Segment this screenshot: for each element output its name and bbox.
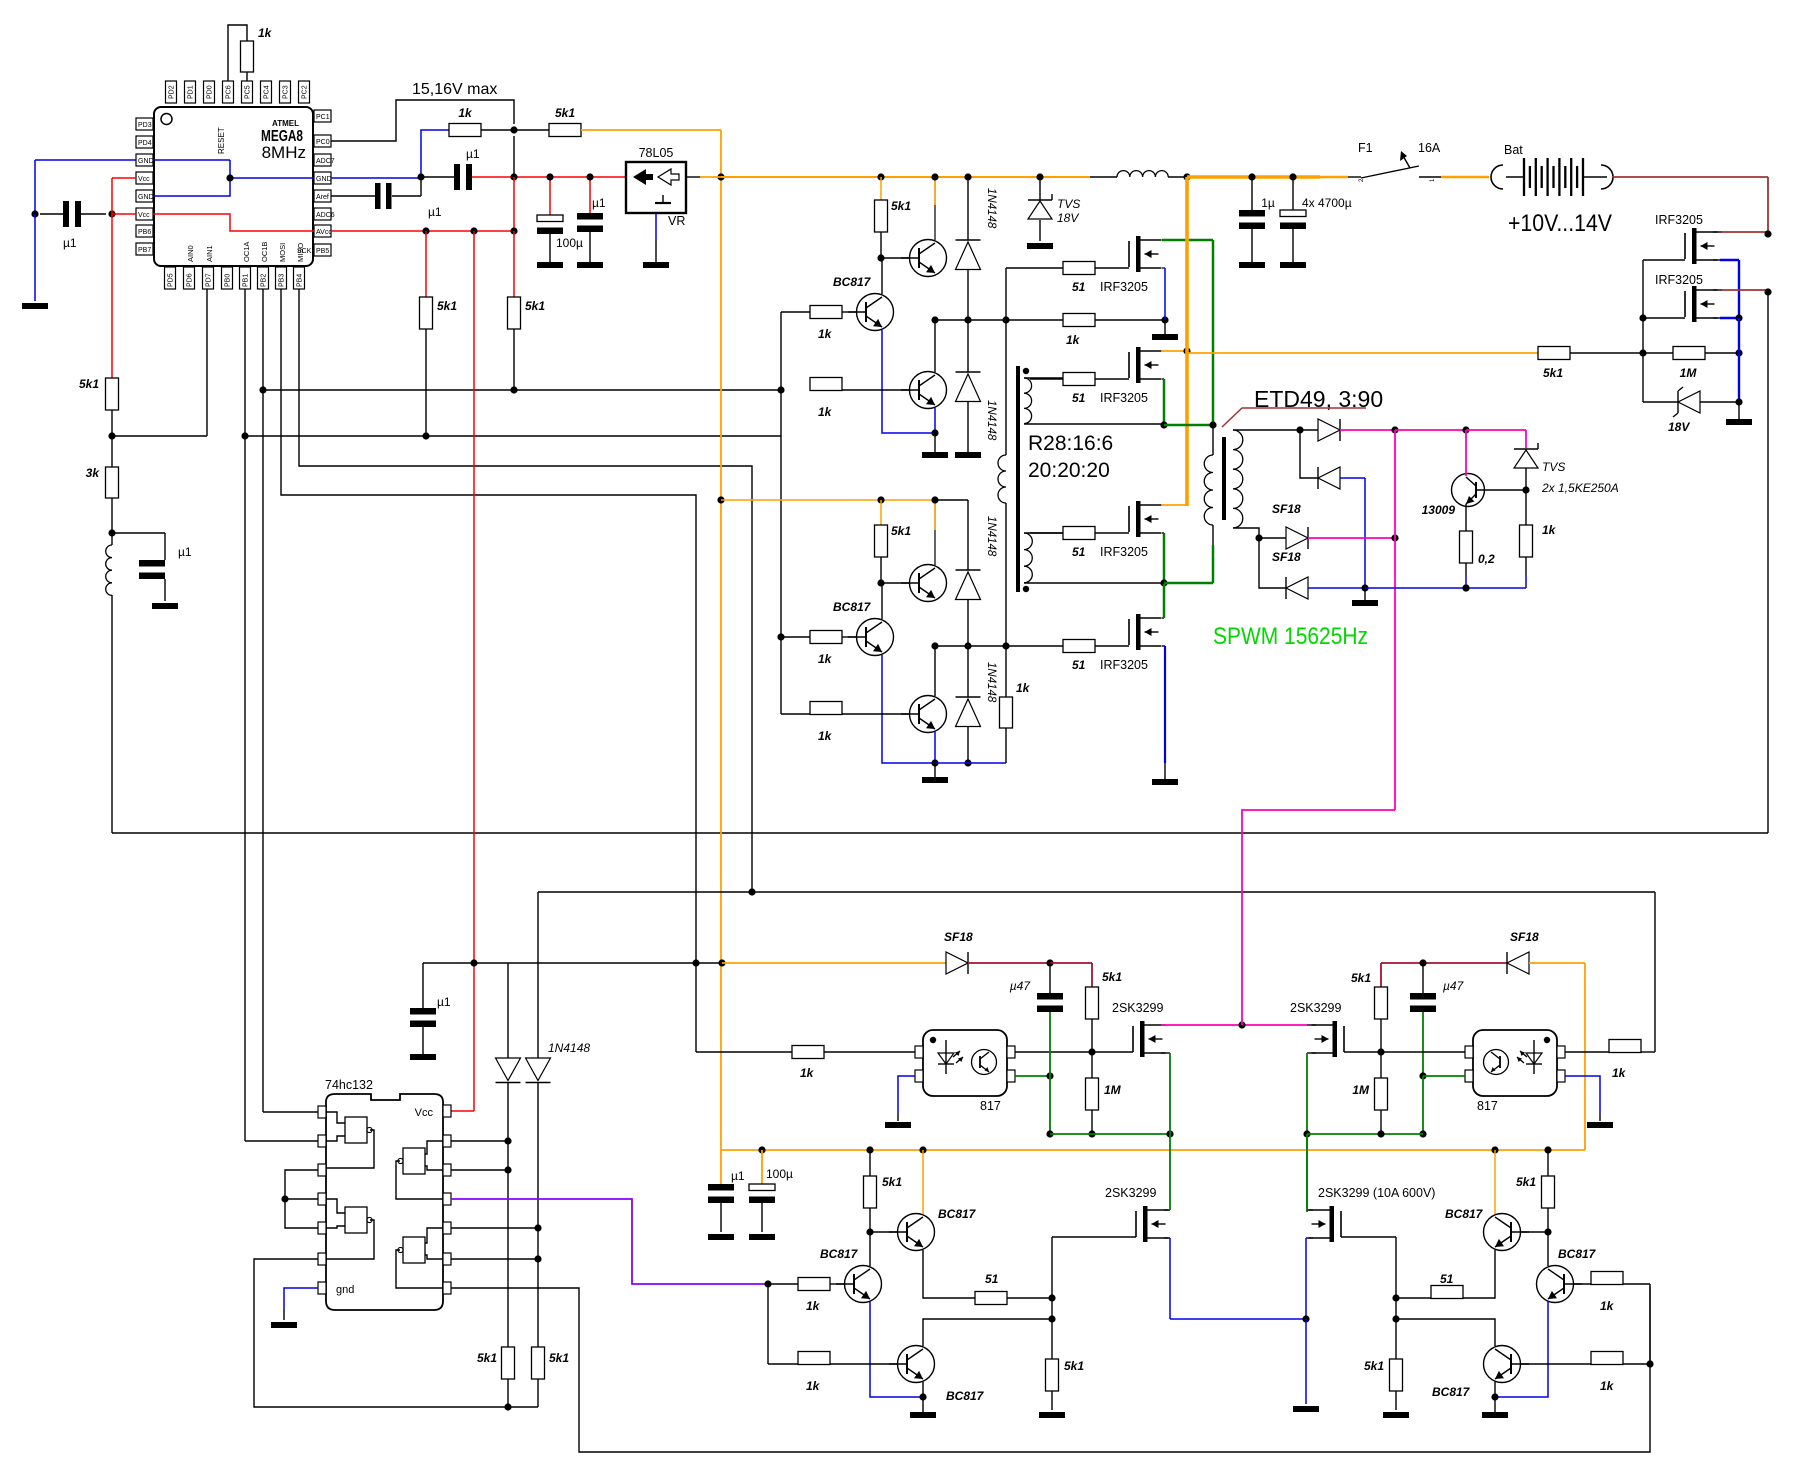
resistor R36 5k1 (M9 pulldown) xyxy=(1046,1359,1085,1410)
label BC817 Q8 xyxy=(938,1207,977,1221)
node junction rail2 Q4 xyxy=(931,496,938,503)
wire orange Q4 collector xyxy=(934,500,936,530)
wire blue Q11 emitter xyxy=(1495,1302,1548,1397)
svg-text:16A: 16A xyxy=(1418,141,1441,155)
wire PB3 column to opto channel xyxy=(281,289,696,963)
node junction GND/Aref cap xyxy=(417,173,424,180)
resistor R10 1k (Q3 base) xyxy=(810,378,842,420)
svg-text:1k: 1k xyxy=(1612,1066,1627,1080)
svg-text:5k1: 5k1 xyxy=(891,524,911,538)
wire T2 primary top green xyxy=(1164,240,1213,425)
transformer T1 lower winding xyxy=(1024,533,1164,583)
wire red AVcc down to 74hc132 Vcc xyxy=(451,231,474,1111)
ground symbol under C6 xyxy=(577,262,603,268)
svg-text:R28:16:6: R28:16:6 xyxy=(1028,432,1113,455)
svg-text:51: 51 xyxy=(1072,545,1086,559)
ground symbol under TVS xyxy=(1027,243,1053,249)
svg-text:2SK3299: 2SK3299 xyxy=(1290,1001,1341,1015)
svg-text:1N4148: 1N4148 xyxy=(985,662,997,703)
svg-text:RESET: RESET xyxy=(217,127,226,154)
label SPWM 15625Hz xyxy=(1213,623,1368,650)
svg-text:IRF3205: IRF3205 xyxy=(1655,273,1703,287)
transformer T1 core xyxy=(1016,366,1020,592)
wire opto1 collector out xyxy=(1015,1051,1092,1053)
svg-text:5k1: 5k1 xyxy=(1102,970,1122,984)
wire Q6 collector xyxy=(934,646,936,696)
transistor Q10 BC817 (drv4 top) xyxy=(1484,1150,1549,1251)
svg-text:ATMEL: ATMEL xyxy=(272,119,299,128)
resistor R37 5k1 (M10 pulldown) xyxy=(1364,1359,1403,1410)
ground symbol under R36 xyxy=(1039,1412,1065,1418)
wire orange Q1 collector xyxy=(934,177,936,205)
svg-text:PD1: PD1 xyxy=(188,85,195,99)
resistor R4 1k (PC0 series) xyxy=(449,106,481,137)
wire U3 p12 out xyxy=(451,1169,508,1171)
node junction gate node right xyxy=(1392,1294,1399,1301)
ground symbol under C5 xyxy=(537,262,563,268)
node junction blue rail diode xyxy=(964,759,971,766)
wire emitter green to rail xyxy=(1422,1076,1424,1134)
resistor R38 5k1 (drv4 bias) xyxy=(1516,1150,1555,1232)
mosfet M7 2SK3299 (hi left) xyxy=(1112,1001,1166,1057)
node junction bus 5k1 a xyxy=(877,173,884,180)
resistor R20 0,2 (emitter) xyxy=(1460,504,1496,575)
node junction Vcc left rail xyxy=(108,210,115,217)
node junction opto1 out / 5k1 xyxy=(1088,1048,1095,1055)
wire 78L05 ground (blue) xyxy=(655,213,657,262)
MCU U1 right pins PC1 PC0 ADC7 GND Aref ADC6 AVcc PB5 xyxy=(314,110,335,256)
wire fuse to battery (orange) xyxy=(1441,176,1489,179)
node junction 1M bottom right xyxy=(1377,1130,1384,1137)
node junction drv4 base node xyxy=(1544,1228,1551,1235)
wire AVcc rail red xyxy=(331,230,514,232)
wire HV return blue to 1k xyxy=(1466,575,1526,588)
wire gate column right xyxy=(1395,1237,1397,1359)
svg-text:8MHz: 8MHz xyxy=(262,143,306,162)
wire opto2 LED anode xyxy=(1565,1051,1609,1053)
svg-text:1M: 1M xyxy=(1680,366,1698,380)
leader line ETD49 xyxy=(1222,408,1366,427)
resistor R27 5k1 (opto1 pull-up) xyxy=(1086,970,1123,1052)
diode D12 1N4148 xyxy=(496,1058,521,1347)
node junction bus diode column xyxy=(964,173,971,180)
node junction emitter/cap xyxy=(1046,1072,1053,1079)
fuse F1 16A switch symbol xyxy=(1348,141,1441,182)
node junction y892/PB4 column xyxy=(748,888,755,895)
transformer T2 primary winding xyxy=(1204,425,1213,545)
resistor R24 5k1 (pulldown a) xyxy=(477,1347,515,1407)
wire Q12 collector link xyxy=(1396,1319,1495,1346)
label U3 Vcc xyxy=(415,1107,434,1119)
svg-text:PB2: PB2 xyxy=(261,274,268,287)
resistor R16 1k (winding return) xyxy=(1000,646,1031,763)
resistor R39 1k (Q11 base) xyxy=(1573,1272,1650,1314)
node junction y963/bootstrap xyxy=(718,959,725,966)
MCU U1 ATmega8 body xyxy=(154,107,313,266)
wire C10 green down xyxy=(1049,1012,1051,1134)
wire magenta from control xyxy=(1242,810,1395,1025)
node junction 1M bottom xyxy=(1088,1130,1095,1137)
svg-text:51: 51 xyxy=(1440,1272,1454,1286)
wire y892 down to right opto xyxy=(1654,892,1656,1052)
wire drv3 ground stub xyxy=(922,1397,924,1412)
node junction p13/x508 xyxy=(504,1137,511,1144)
svg-text:PB0: PB0 xyxy=(225,274,232,287)
wire orange y963 branch xyxy=(722,962,946,964)
svg-text:PD2: PD2 xyxy=(169,85,176,99)
gate U3D nand xyxy=(396,1228,443,1288)
wire Q3 collector to rail xyxy=(934,320,936,372)
diode D2 1N4148 (driver1 top) xyxy=(956,177,981,320)
svg-text:5k1: 5k1 xyxy=(1064,1359,1084,1373)
MCU internal AVcc wire (red) xyxy=(153,214,314,231)
label 74hc132 xyxy=(325,1078,373,1092)
ground symbol drv3 xyxy=(910,1412,936,1418)
node junction pulldown rail xyxy=(504,1403,511,1410)
svg-text:MOSI: MOSI xyxy=(278,243,287,262)
wire gate column left xyxy=(1051,1237,1053,1359)
svg-text:PC2: PC2 xyxy=(302,85,309,99)
svg-text:1k: 1k xyxy=(458,106,473,120)
node junction driver2 base node xyxy=(877,579,884,586)
wire Q12 emitter xyxy=(1494,1382,1496,1397)
wire M9 source blue xyxy=(1164,1238,1170,1319)
svg-text:IRF3205: IRF3205 xyxy=(1100,391,1148,405)
wire orange driver2 rail xyxy=(721,499,935,501)
ground symbol opto1 xyxy=(885,1122,911,1128)
wire Vcc pins to left vertical rail (red) xyxy=(112,178,136,214)
node junction Q12 collector xyxy=(1392,1315,1399,1322)
wire boost to 5k1 xyxy=(1050,963,1092,987)
svg-text:PD0: PD0 xyxy=(207,85,214,99)
transistor Q6 BC817 (driver2 bottom) xyxy=(781,696,947,733)
svg-text:2SK3299: 2SK3299 xyxy=(1105,1186,1156,1200)
wire HV return blue right xyxy=(1365,587,1466,589)
diode D13 1N4148 xyxy=(526,1058,551,1347)
svg-text:51: 51 xyxy=(1072,658,1086,672)
resistor R3 3k (divider bottom) xyxy=(86,436,119,498)
wire PB1 column down to 74hc132 pin2 xyxy=(245,289,318,1141)
svg-text:5k1: 5k1 xyxy=(891,199,911,213)
svg-text:5k1: 5k1 xyxy=(1351,971,1371,985)
svg-text:5k1: 5k1 xyxy=(525,299,545,313)
wire D6 output magenta xyxy=(1340,429,1395,431)
node junction on drive line (AVcc pull-up) xyxy=(422,432,429,439)
svg-text:4x 4700µ: 4x 4700µ xyxy=(1302,196,1352,210)
wire Q6 emitter xyxy=(934,732,936,763)
ground symbol under C8 xyxy=(1280,262,1306,268)
svg-text:AIN1: AIN1 xyxy=(205,245,214,262)
resistor R33 1k (Q7 base) xyxy=(768,1278,845,1314)
wire emitters to ground xyxy=(934,433,936,452)
transformer T1 feedback winding xyxy=(998,268,1006,646)
resistor R15 51 (M4 gate) xyxy=(1063,640,1129,653)
svg-text:TVS: TVS xyxy=(1542,460,1565,474)
diode D9 SF18 (clamp lower) xyxy=(1259,538,1308,599)
svg-text:Vcc: Vcc xyxy=(138,212,150,219)
svg-text:PD6: PD6 xyxy=(187,273,194,287)
mosfet M8 2SK3299 (hi right) xyxy=(1290,1001,1344,1057)
capacitor C8 4x 4700u xyxy=(1280,177,1352,262)
label 15,16V max xyxy=(412,81,497,98)
label SF18 a xyxy=(1272,502,1301,516)
node junction green rail left end xyxy=(1046,1130,1053,1137)
svg-text:2x 1,5KE250A: 2x 1,5KE250A xyxy=(1541,481,1619,495)
wire T2 primary bottom green xyxy=(1164,545,1213,583)
wire magenta column down xyxy=(1394,430,1396,810)
svg-text:PD7: PD7 xyxy=(206,273,213,287)
svg-text:100µ: 100µ xyxy=(556,236,583,250)
wire x781 internal driver link xyxy=(780,312,782,714)
svg-text:1M: 1M xyxy=(1104,1083,1122,1097)
wire M1 source blue xyxy=(1162,268,1165,320)
svg-text:OC1A: OC1A xyxy=(242,242,251,262)
svg-text:1µ: 1µ xyxy=(1261,196,1275,210)
label 1N4148 pair xyxy=(548,1041,590,1055)
svg-text:IRF3205: IRF3205 xyxy=(1100,545,1148,559)
node junction R20 return xyxy=(1462,584,1469,591)
svg-text:µ47: µ47 xyxy=(1443,979,1465,993)
wire M6 gate link xyxy=(1643,317,1685,319)
wire blue source rail xyxy=(1170,1318,1306,1320)
wire Q3 emitter blue xyxy=(934,408,936,433)
node junction bus Q8 xyxy=(919,1146,926,1153)
svg-text:µ1: µ1 xyxy=(466,147,480,161)
svg-text:1k: 1k xyxy=(818,405,833,419)
node junction AVcc b xyxy=(470,227,477,234)
wire Q9 emitter xyxy=(922,1382,924,1397)
node junction rail2 a xyxy=(931,642,938,649)
svg-text:5k1: 5k1 xyxy=(549,1351,569,1365)
ground symbol M4 xyxy=(1152,779,1178,785)
svg-text:AVcc: AVcc xyxy=(316,229,332,236)
svg-text:1N4148: 1N4148 xyxy=(985,188,997,229)
wire M2 source green xyxy=(1162,379,1164,425)
node junction 5V/C6 xyxy=(586,173,593,180)
mosfet M4 IRF3205 xyxy=(1072,614,1162,672)
wire input link right xyxy=(1649,1284,1651,1364)
wire inductor to thick bus node xyxy=(1168,176,1187,178)
label +10V...14V xyxy=(1508,210,1612,237)
svg-text:TVS: TVS xyxy=(1057,197,1080,211)
wire reset resistor bottom to PC5 pin xyxy=(246,72,248,81)
wire M10 source blue xyxy=(1306,1238,1313,1319)
wire divider xyxy=(111,410,113,436)
wire from PC6 pin up and over to reset resistor xyxy=(228,25,247,81)
wire PB2 column down to 74hc132 pin1 xyxy=(263,289,318,1112)
resistor R25 5k1 (pulldown b) xyxy=(532,1347,570,1407)
svg-text:SF18: SF18 xyxy=(1510,930,1539,944)
MCU U1 left pins PD3 PD4 GND Vcc GND Vcc PB6 PB7 xyxy=(136,118,154,255)
wire M9 drain green xyxy=(1164,1134,1170,1210)
inductor L2 (input filter) xyxy=(1117,171,1168,177)
node junction rail1 a xyxy=(931,316,938,323)
wire M8 drain magenta xyxy=(1242,1024,1316,1026)
capacitor C13 100u (bottom bus) xyxy=(749,1150,793,1232)
gate U3A nand xyxy=(326,1112,374,1168)
wire magenta to TVS corner xyxy=(1466,430,1526,448)
wire blue emitter rail 2 xyxy=(935,762,1006,764)
node junction rail2 winding xyxy=(1002,642,1009,649)
svg-text:100µ: 100µ xyxy=(766,1167,793,1181)
wire M4 source to ground xyxy=(1164,763,1166,779)
wire opto2 cathode blue to gnd xyxy=(1565,1076,1600,1121)
MCU internal GND wire (blue) xyxy=(153,160,314,196)
node junction right source node a xyxy=(1735,349,1742,356)
diode D8 SF18 xyxy=(1259,527,1308,549)
ground symbol under C13 xyxy=(749,1234,775,1240)
svg-text:51: 51 xyxy=(1072,280,1086,294)
wire inductor down and long bottom rail to right edge xyxy=(112,595,1768,833)
node junction drv4 emitters xyxy=(1491,1393,1498,1400)
gate U3C nand xyxy=(396,1141,443,1199)
svg-text:ADC6: ADC6 xyxy=(316,212,335,219)
svg-text:PC1: PC1 xyxy=(316,114,330,121)
svg-text:gnd: gnd xyxy=(336,1284,354,1296)
svg-text:Vcc: Vcc xyxy=(415,1107,434,1119)
capacitor C11 u47 (boost right) xyxy=(1410,963,1465,1012)
resistor R5 5k1 (to boost rail) xyxy=(549,106,581,137)
node junction HV magenta column xyxy=(1391,534,1398,541)
ground symbol under C9 xyxy=(410,1054,436,1060)
capacitor C4 u1 (Aref) xyxy=(331,178,442,219)
wire right source column blue xyxy=(1738,318,1740,402)
wire M10 drain green xyxy=(1307,1134,1313,1210)
resistor R8 5k1 (driver1 bias) xyxy=(875,177,912,258)
node junction secondary bottom xyxy=(1255,534,1262,541)
svg-text:PD5: PD5 xyxy=(168,273,175,287)
svg-text:15,16V max: 15,16V max xyxy=(412,81,497,98)
wire blue Q5 emitter xyxy=(882,655,935,763)
mosfet M5 IRF3205 (reverse protect top) xyxy=(1655,213,1718,264)
svg-text:PB4: PB4 xyxy=(297,274,304,287)
node junction TVS/base xyxy=(1522,486,1529,493)
node junction battery rail b xyxy=(1764,288,1771,295)
wire 78L05 output to bus xyxy=(686,176,721,178)
diode D3 1N4148 (driver1 bottom) xyxy=(956,320,981,452)
svg-text:20:20:20: 20:20:20 xyxy=(1028,459,1110,482)
node junction M2 drain / orange rail xyxy=(1183,347,1190,354)
node junction magenta bridge xyxy=(1238,1021,1245,1028)
wire GND pin right (blue) to cap node xyxy=(331,177,421,179)
resistor R11 1k (M1 gate pulldown) xyxy=(1063,314,1165,348)
node junction boost left xyxy=(1046,959,1053,966)
transistor Q11 BC817 (drv4 mid) xyxy=(1537,1232,1583,1303)
label 1N4148 d xyxy=(985,662,997,703)
svg-text:SF18: SF18 xyxy=(1272,502,1301,516)
svg-text:PB7: PB7 xyxy=(138,247,151,254)
svg-text:BC817: BC817 xyxy=(820,1247,859,1261)
ground symbol M1 source xyxy=(1152,320,1178,340)
node junction bus cap 100u xyxy=(758,1146,765,1153)
transistor Q13 13009 xyxy=(1422,474,1526,518)
wire blue Q2 emitter to gnd node xyxy=(882,330,935,433)
capacitor C3 u1 (5V rail) xyxy=(421,147,480,190)
wire node to PD7 xyxy=(112,289,207,436)
wire PB3 column to LED resistor xyxy=(696,963,792,1052)
diode D5 1N4148 (driver2 bottom) xyxy=(956,646,981,763)
label R28:16:6 xyxy=(1028,432,1113,455)
node junction bus C7 xyxy=(1248,173,1255,180)
wire rail2 to diode col xyxy=(935,499,968,501)
node junction at left rail and capacitor xyxy=(31,210,38,217)
ground symbol left rail xyxy=(22,303,48,309)
node junction bus TVS xyxy=(1036,173,1043,180)
wire M6 drain dark red xyxy=(1713,289,1768,291)
svg-text:3k: 3k xyxy=(86,466,101,480)
svg-text:IRF3205: IRF3205 xyxy=(1100,280,1148,294)
node junction PB1 / drive line xyxy=(241,432,248,439)
wire orange gate feed right xyxy=(1187,352,1538,354)
wire M2 drain orange xyxy=(1162,350,1187,352)
wire Q8 emitter to 51 xyxy=(923,1250,975,1298)
wire left rail down to ground xyxy=(34,214,36,301)
svg-text:IRF3205: IRF3205 xyxy=(1655,213,1703,227)
transistor Q8 BC817 (drv3 top) xyxy=(870,1150,935,1251)
resistor R35 51 (M9 gate) xyxy=(975,1272,1052,1305)
IC U3 right pins xyxy=(443,1105,451,1294)
node junction y963/PB3 column xyxy=(692,959,699,966)
svg-text:PD4: PD4 xyxy=(138,140,152,147)
diode D1 TVS 18V xyxy=(1028,177,1080,241)
resistor R7 5k1 (PB2 pull-up) xyxy=(508,231,546,390)
node junction HV+ a xyxy=(1391,426,1398,433)
svg-text:µ1: µ1 xyxy=(592,196,606,210)
capacitor C2 u1 (PD7 filter) xyxy=(139,545,192,601)
resistor R34 1k (Q9 base) xyxy=(798,1352,830,1394)
node junction bus / thick rail xyxy=(1183,173,1190,180)
ground symbol driver2 xyxy=(922,777,948,783)
gate U3B nand xyxy=(326,1199,374,1259)
diode D6 SF18 xyxy=(1300,419,1340,441)
wire gate rail 1 (source reference) xyxy=(935,319,1063,321)
transistor Q12 BC817 (drv4 bottom) xyxy=(1484,1346,1592,1383)
wire opto2 emitter green xyxy=(1423,1075,1465,1077)
svg-text:BC817: BC817 xyxy=(833,600,872,614)
wire bus black segment before inductor xyxy=(1090,176,1117,178)
svg-text:51: 51 xyxy=(1072,391,1086,405)
node junction driver1 base node xyxy=(877,254,884,261)
wire M9 gate lead xyxy=(1052,1236,1136,1238)
svg-text:5k1: 5k1 xyxy=(555,106,575,120)
wire orange 5k1 to bootstrap column xyxy=(581,129,721,131)
node junction rail2 5k1 xyxy=(877,496,884,503)
resistor R1 1k (reset pull-up) xyxy=(241,26,273,72)
wire M8 source green xyxy=(1307,1053,1316,1212)
wire PB1 drive line to x781 xyxy=(245,435,781,437)
mosfet M3 IRF3205 xyxy=(1072,501,1162,559)
wire opto1 emitter green xyxy=(1015,1075,1050,1077)
ground symbol opto2 xyxy=(1587,1122,1613,1128)
wire orange bootstrap column x721 down xyxy=(720,130,722,1150)
svg-text:F1: F1 xyxy=(1358,141,1373,155)
wire M5 gate link xyxy=(1643,260,1685,353)
svg-text:13009: 13009 xyxy=(1422,503,1456,517)
svg-text:PC4: PC4 xyxy=(264,85,271,99)
node junction bus C8 xyxy=(1289,173,1296,180)
transformer T2 core xyxy=(1222,437,1226,520)
transistor Q5 BC817 (driver2 mid) xyxy=(848,583,894,656)
wire Vcc distribution y963 xyxy=(423,962,722,964)
node junction AVcc a xyxy=(422,227,429,234)
wire Q13 collector magenta xyxy=(1465,430,1467,476)
resistor R14 1k (Q6 base) xyxy=(810,702,842,744)
mosfet M10 2SK3299 (lo right) xyxy=(1309,1186,1436,1242)
node junction 5V rail / x514 xyxy=(510,173,517,180)
svg-text:5k1: 5k1 xyxy=(1543,366,1563,380)
transistor Q4 BC817 (driver2 top) xyxy=(881,500,947,602)
node junction HV return a xyxy=(1361,584,1368,591)
